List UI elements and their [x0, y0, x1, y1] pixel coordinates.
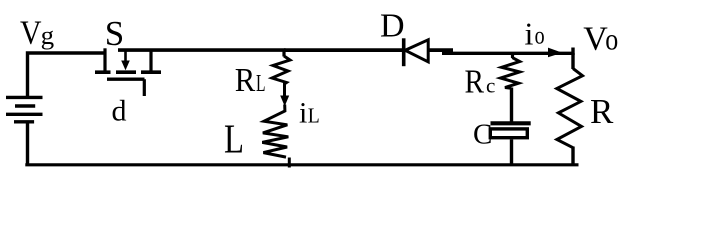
svg-text:C: C	[473, 119, 492, 151]
switch S MOSFET: drain contact bar	[95, 70, 111, 74]
svg-text:d: d	[112, 94, 127, 127]
wire bottom rail	[25, 163, 578, 166]
switch S MOSFET: gate stub d	[143, 79, 146, 96]
wire capacitor C to bottom rail	[510, 140, 513, 165]
resistor R zigzag	[557, 69, 583, 148]
switch S MOSFET: body arrow shaft	[124, 50, 127, 61]
node A junction stub	[282, 50, 285, 57]
capacitor C bottom plate box	[490, 129, 527, 138]
capacitor C top plate	[491, 121, 531, 125]
wire jog lower segment diode to node B	[442, 52, 573, 55]
svg-text:g: g	[41, 21, 55, 50]
wire node A to diode	[284, 48, 402, 52]
svg-text:o: o	[605, 21, 618, 56]
svg-text:o: o	[535, 23, 545, 50]
resistor RC zigzag	[501, 58, 520, 89]
svg-text:S: S	[105, 14, 124, 53]
svg-text:i: i	[525, 16, 534, 52]
resistor R top lead	[571, 53, 574, 69]
node B corner stub above wire	[571, 48, 574, 56]
diode D triangle	[405, 40, 428, 62]
switch S MOSFET: body contact bar	[116, 70, 136, 74]
resistor RC junction stub	[511, 53, 514, 58]
svg-text:c: c	[486, 74, 495, 98]
resistor RL zigzag	[272, 56, 290, 84]
resistor R bottom lead	[571, 147, 574, 167]
svg-text:L: L	[308, 103, 320, 127]
svg-text:L: L	[224, 115, 244, 161]
diode D cathode bar	[402, 38, 406, 66]
svg-text:V: V	[20, 14, 42, 51]
svg-text:L: L	[256, 71, 266, 97]
switch S MOSFET: body arrow head	[121, 61, 130, 71]
switch S MOSFET: source lead vertical	[149, 50, 152, 71]
switch S MOSFET: drain lead	[103, 48, 106, 71]
wire left vertical below battery	[26, 122, 29, 165]
wire top-left segment Vg to switch S	[28, 53, 106, 97]
voltage source Vg battery	[6, 97, 43, 121]
wire top middle segment switch to node A	[118, 48, 286, 52]
current arrow iL shaft	[283, 83, 286, 97]
wire RC to capacitor C	[510, 88, 513, 123]
svg-text:R: R	[590, 92, 614, 131]
switch S MOSFET: gate bar	[107, 77, 145, 80]
svg-text:D: D	[380, 7, 405, 44]
switch S MOSFET: source contact bar	[141, 70, 161, 74]
current arrow iL head	[280, 96, 289, 107]
inductor L zigzag	[262, 105, 288, 158]
svg-text:R: R	[465, 64, 485, 101]
svg-text:i: i	[299, 96, 307, 129]
svg-text:R: R	[235, 62, 256, 99]
current arrow io head	[548, 48, 562, 58]
wire diode to jog	[428, 48, 453, 52]
inductor L bottom tick	[288, 158, 291, 168]
